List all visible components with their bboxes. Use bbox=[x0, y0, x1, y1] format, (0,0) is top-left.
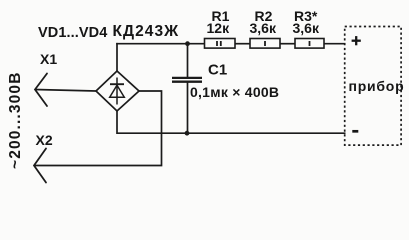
terminal X1 bbox=[35, 74, 47, 107]
svg-text:КД243Ж: КД243Ж bbox=[113, 23, 180, 40]
junction dot cap top bbox=[185, 41, 190, 46]
svg-text:3,6к: 3,6к bbox=[293, 20, 320, 36]
svg-text:3,6к: 3,6к bbox=[250, 20, 277, 36]
svg-text:0,1мк × 400В: 0,1мк × 400В bbox=[190, 84, 279, 100]
resistor R3 bbox=[295, 39, 324, 49]
svg-text:С1: С1 bbox=[208, 62, 227, 79]
wire bridge bottom to minus rail bbox=[117, 111, 346, 133]
wire X1 to bridge left bbox=[35, 90, 96, 92]
svg-text:X1: X1 bbox=[40, 51, 57, 67]
svg-text:прибор: прибор bbox=[349, 78, 405, 94]
capacitor C1 plates bbox=[172, 78, 202, 82]
bridge rectifier VD1...VD4 diamond bbox=[96, 71, 139, 111]
diode symbol inside bridge bbox=[110, 78, 125, 105]
label plus terminal bbox=[352, 36, 361, 45]
label minus terminal bbox=[352, 130, 358, 133]
wire bridge top to rail bbox=[116, 43, 118, 71]
svg-text:~200...300В: ~200...300В bbox=[7, 71, 24, 169]
terminal X2 bbox=[34, 149, 46, 183]
wire cap top lead bbox=[187, 44, 189, 77]
wire cap bottom lead bbox=[187, 82, 189, 133]
wire R1 to R2 bbox=[235, 43, 250, 45]
junction dot cap bottom bbox=[185, 131, 190, 136]
resistor R2 bbox=[250, 39, 280, 49]
svg-text:X2: X2 bbox=[36, 132, 53, 148]
wire R2 to R3 bbox=[280, 43, 295, 45]
wire top rail: riser to R1 bbox=[116, 43, 204, 45]
wire X2 to bridge right (via corner) bbox=[34, 91, 162, 166]
device box (прибор) dotted bbox=[345, 27, 401, 146]
label VD1...VD4 КД243Ж bbox=[38, 23, 179, 41]
wire R3 to device plus bbox=[324, 43, 346, 45]
svg-text:12к: 12к bbox=[207, 20, 231, 36]
resistor R1 bbox=[205, 39, 236, 49]
svg-text:VD1...VD4: VD1...VD4 bbox=[38, 25, 107, 41]
